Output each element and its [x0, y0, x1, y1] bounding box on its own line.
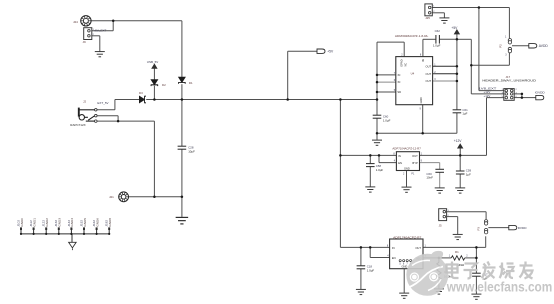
svg-text:GND0: GND0 [20, 218, 24, 227]
svg-text:EN: EN [398, 161, 402, 165]
svg-text:1.0µF: 1.0µF [367, 268, 375, 272]
svg-text:ADM3028ACPZ-1.8-RL: ADM3028ACPZ-1.8-RL [395, 34, 429, 38]
svg-text:GND5: GND5 [83, 218, 87, 227]
svg-text:EPAD: EPAD [399, 59, 403, 66]
svg-text:10µF: 10µF [188, 149, 195, 153]
svg-text:GND: GND [404, 167, 410, 171]
svg-text:OUT: OUT [426, 72, 432, 76]
svg-text:GND2: GND2 [45, 218, 49, 227]
svg-text:EXT_5V: EXT_5V [97, 101, 108, 105]
svg-text:10nF: 10nF [426, 175, 433, 179]
svg-text:IN: IN [398, 73, 401, 77]
svg-text:1µF: 1µF [462, 112, 467, 116]
svg-text:IN: IN [421, 59, 425, 62]
svg-text:+5V_EXT: +5V_EXT [93, 28, 106, 32]
svg-text:OUT: OUT [426, 64, 432, 68]
svg-text:J21: J21 [109, 195, 114, 199]
svg-text:HEADER_5WAY_UNSHROUD: HEADER_5WAY_UNSHROUD [482, 78, 536, 82]
svg-text:OUT: OUT [426, 79, 432, 83]
svg-text:GND: GND [402, 265, 408, 269]
svg-text:GND8: GND8 [108, 218, 112, 227]
svg-text:1µF: 1µF [466, 172, 471, 176]
svg-text:GND3: GND3 [58, 218, 62, 227]
svg-text:1.0µF: 1.0µF [383, 119, 391, 123]
svg-text:+5V: +5V [327, 49, 334, 53]
svg-text:OUT: OUT [415, 246, 421, 250]
svg-text:D1: D1 [189, 81, 193, 85]
svg-text:IOVDD: IOVDD [535, 91, 546, 95]
svg-text:OUT: OUT [412, 154, 418, 158]
svg-text:GND6: GND6 [95, 218, 99, 227]
svg-text:www.elecfans.com: www.elecfans.com [446, 280, 552, 295]
svg-text:+5V: +5V [451, 26, 458, 30]
svg-text:USB_5V: USB_5V [147, 60, 159, 64]
svg-text:GND: GND [419, 97, 423, 103]
svg-text:GND4: GND4 [70, 218, 74, 227]
svg-text:J5: J5 [439, 224, 442, 228]
svg-text:+12V: +12V [454, 139, 463, 143]
svg-text:P2: P2 [499, 44, 503, 48]
svg-text:J24: J24 [73, 20, 78, 24]
svg-text:P3: P3 [477, 227, 481, 231]
svg-text:J2: J2 [83, 100, 86, 104]
svg-text:J25: J25 [425, 16, 430, 20]
svg-text:J9: J9 [83, 40, 87, 44]
svg-text:R1: R1 [455, 250, 459, 254]
svg-text:BYP: BYP [412, 161, 418, 165]
svg-text:EN: EN [392, 256, 396, 260]
svg-text:RAPC712X: RAPC712X [70, 123, 85, 127]
svg-text:1.0µF: 1.0µF [433, 43, 441, 47]
svg-text:+12V: +12V [484, 94, 491, 98]
svg-text:1.0µF: 1.0µF [376, 168, 384, 172]
svg-text:NC: NC [405, 63, 408, 67]
svg-text:D3: D3 [139, 91, 143, 95]
svg-text:ADP7104ACPZ-12-R7: ADP7104ACPZ-12-R7 [392, 146, 421, 150]
svg-text:IN: IN [398, 80, 401, 84]
svg-text:SD: SD [397, 90, 401, 94]
svg-text:C62: C62 [435, 29, 441, 33]
svg-text:D2: D2 [162, 83, 166, 87]
svg-text:IN: IN [398, 154, 401, 158]
svg-text:AVDD: AVDD [539, 44, 549, 48]
svg-text:ADP1740ACPZ-R7: ADP1740ACPZ-R7 [393, 236, 422, 240]
svg-text:IN: IN [392, 246, 395, 250]
svg-text:U4: U4 [411, 72, 415, 76]
svg-text:GND1: GND1 [32, 218, 36, 227]
svg-text:DVDD: DVDD [518, 226, 528, 230]
